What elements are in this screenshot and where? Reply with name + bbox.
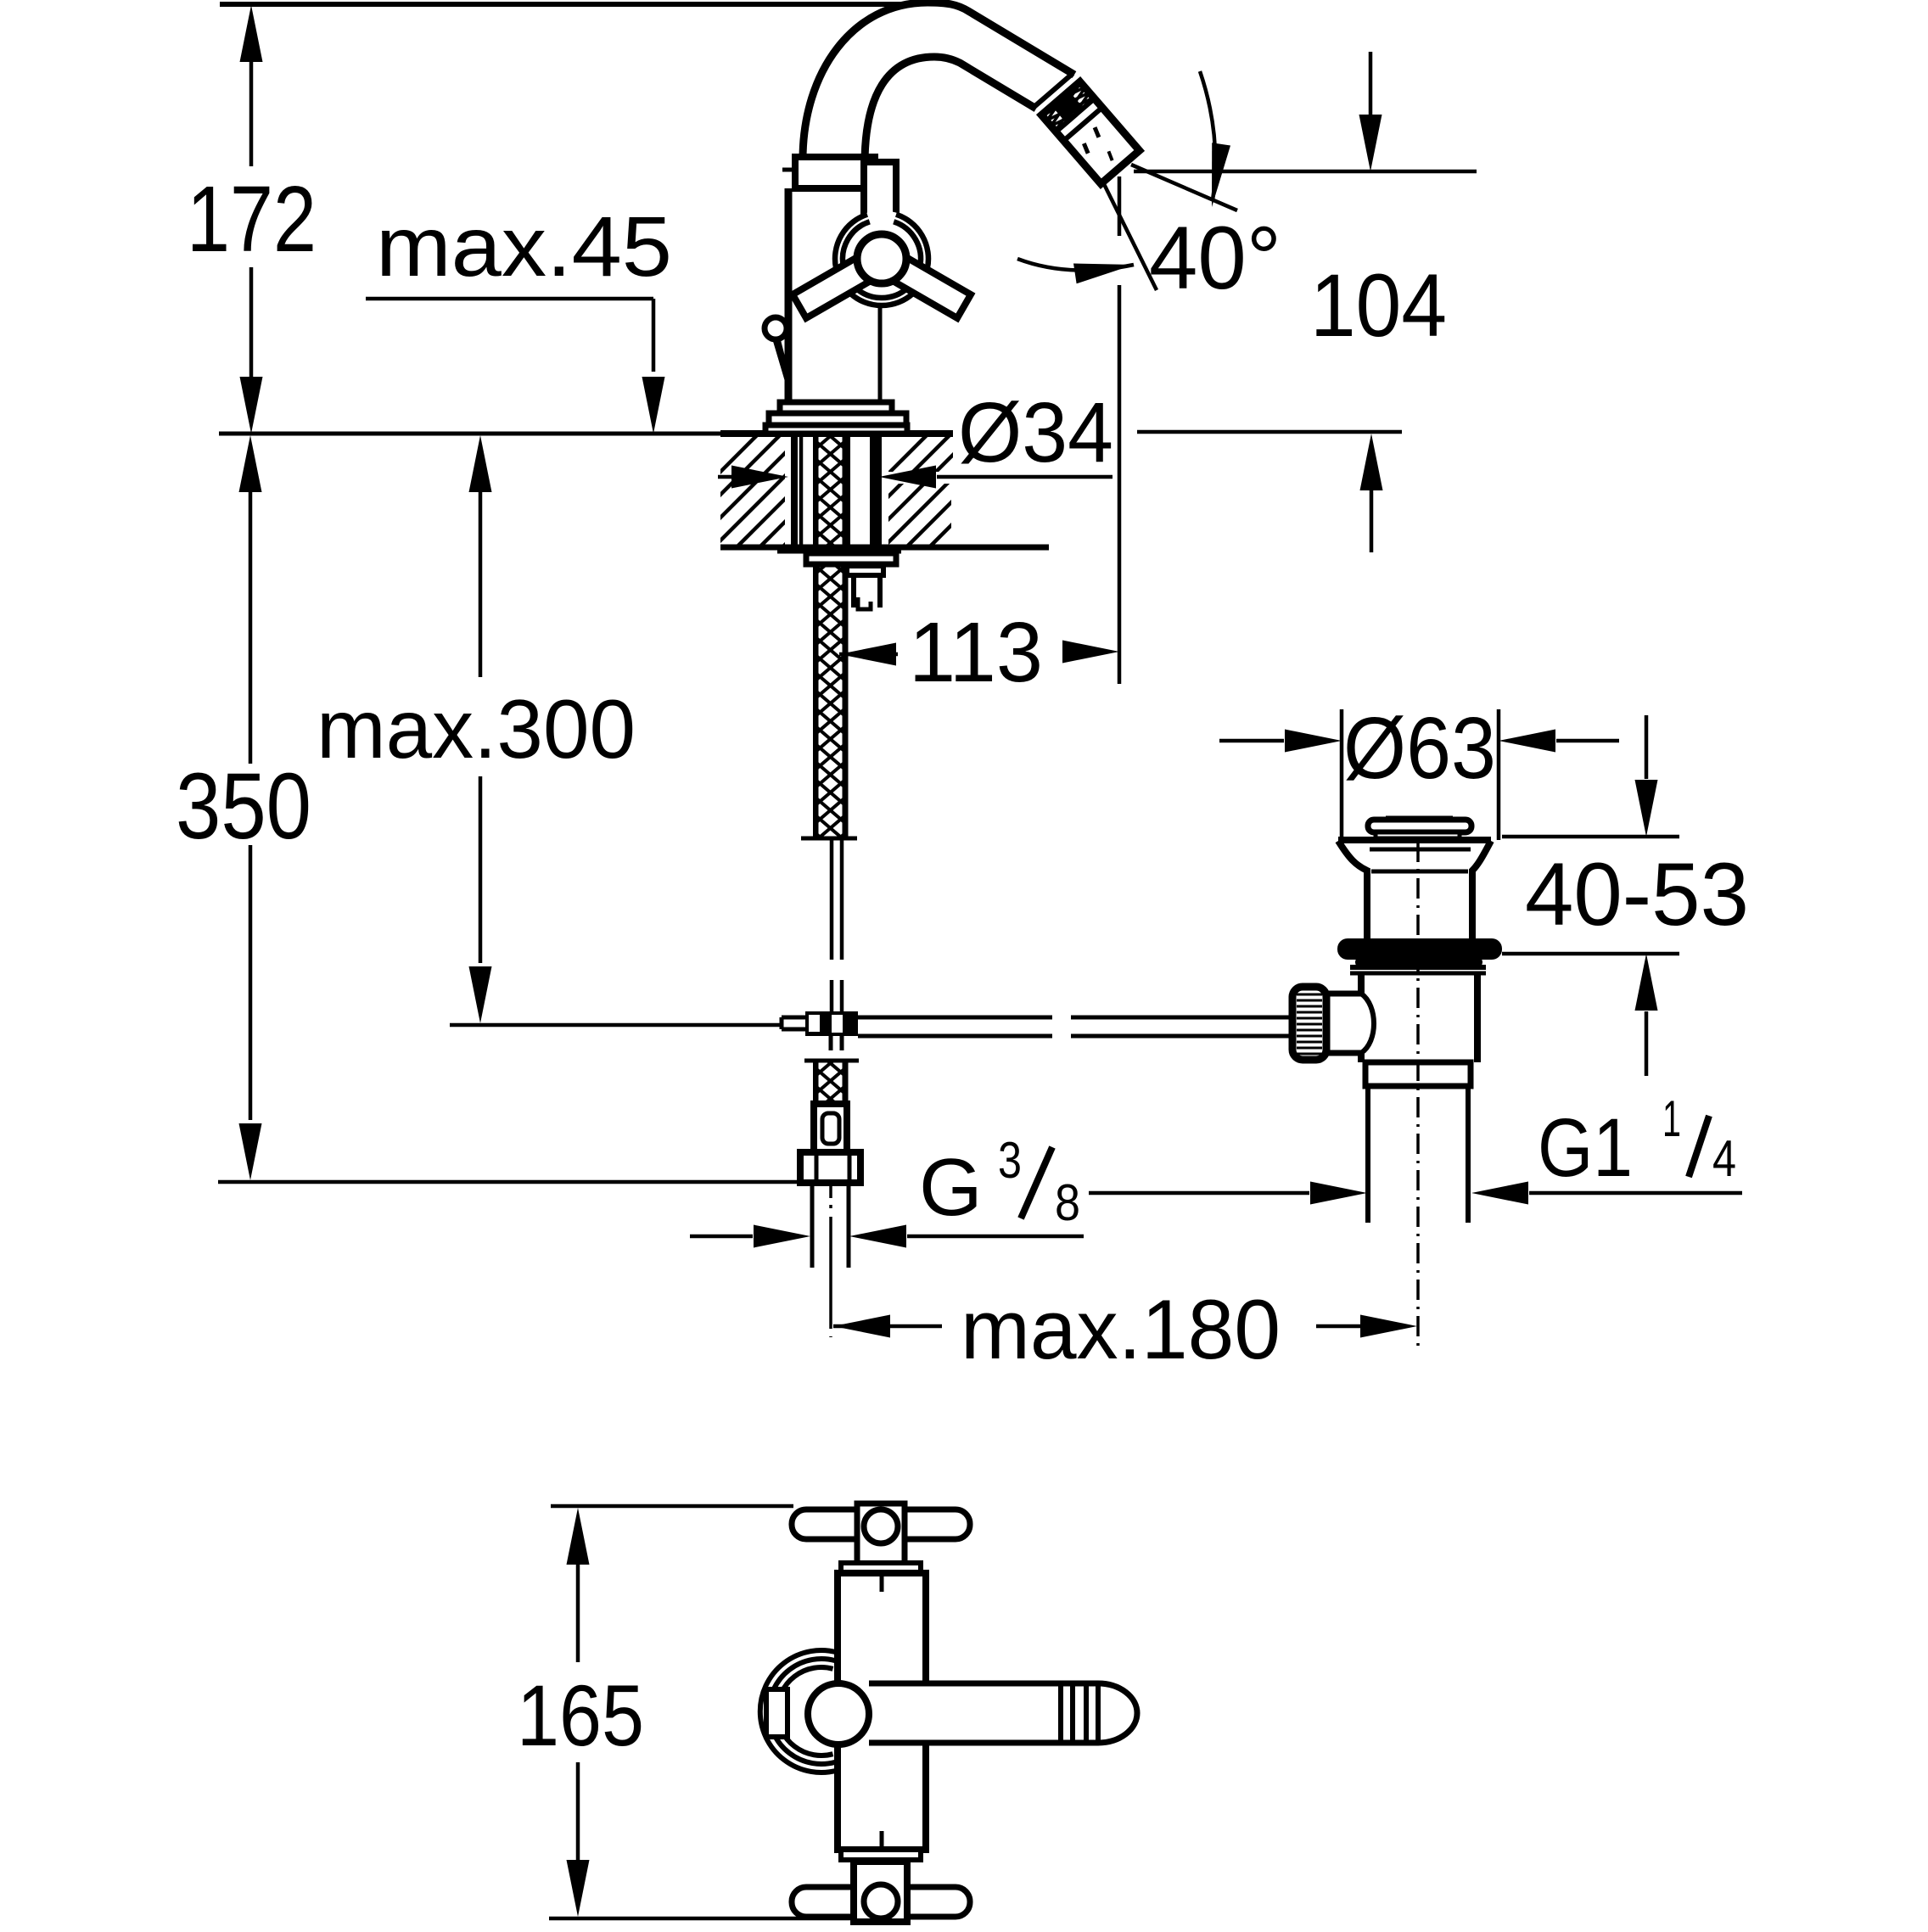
- pop-up lever rod to drain: [858, 1016, 1052, 1020]
- supply nut: [800, 1152, 860, 1183]
- wire: second hose cap line: [804, 1059, 859, 1063]
- svg-text:4: 4: [1712, 1130, 1736, 1187]
- wire: spout outlet level extension line: [1134, 170, 1477, 174]
- wire: max.180 dimension: [833, 1315, 890, 1338]
- svg-text:Ø34: Ø34: [958, 385, 1113, 480]
- pop-up rod hook: [858, 597, 871, 609]
- svg-text:40°: 40°: [1149, 209, 1281, 308]
- wire: deck slab top edge: [720, 430, 953, 437]
- wire: deck level extension to 104 dim: [1137, 430, 1402, 434]
- plan view spout cylinder: [869, 1683, 1137, 1743]
- svg-text:8: 8: [1055, 1174, 1080, 1231]
- drain lever port housing: [1326, 991, 1363, 997]
- plan view upper handle hub: [857, 1504, 905, 1565]
- wire: max.45 leader underline: [366, 297, 653, 301]
- svg-text:113: 113: [909, 605, 1043, 700]
- threaded shank below deck: [791, 434, 798, 547]
- wire: 350 bottom extension line: [218, 1180, 801, 1184]
- plan view upper cross-handle bar: [792, 1509, 970, 1539]
- plan view spout hub circle: [808, 1683, 869, 1744]
- svg-text:G: G: [919, 1142, 983, 1233]
- wire: hose end cap line: [801, 837, 857, 841]
- svg-text:172: 172: [187, 167, 317, 272]
- supply pipe: [810, 1183, 815, 1268]
- drain waste body: [1350, 965, 1486, 970]
- wire: 104 dimension arrows: [1369, 52, 1373, 119]
- svg-text:3: 3: [998, 1132, 1022, 1189]
- faucet body collar: [795, 157, 875, 188]
- drain knurled adjuster knob: [1292, 987, 1326, 1060]
- supply pipe center line: [829, 1184, 832, 1337]
- wire: Ø34 dimension arrows: [718, 475, 737, 479]
- svg-text:Ø63: Ø63: [1343, 699, 1496, 797]
- wire: 172 dimension line with arrows: [240, 5, 263, 62]
- wire: deck top reference line: [219, 432, 722, 436]
- drain tailpipe threaded ring: [1365, 1062, 1471, 1086]
- pop-up lever knob: [765, 317, 787, 339]
- wire: 40-53 dimension: [1502, 835, 1679, 839]
- plan view escutcheon arcs: [760, 1650, 838, 1772]
- pop-up rod tube in shank: [845, 437, 850, 565]
- svg-text:max.300: max.300: [317, 682, 636, 776]
- lever left stub: [782, 1016, 805, 1020]
- wire: 40° arc lower with arrowhead: [1017, 259, 1134, 271]
- plan view lower handle: [841, 1850, 921, 1860]
- hose fitting: [814, 1104, 847, 1152]
- drain bell flange: [1338, 837, 1491, 843]
- wire: G3/8 dimension arrows: [690, 1235, 753, 1239]
- drain pop-up plug: [1386, 816, 1453, 820]
- wire: 350 dimension line: [239, 435, 262, 492]
- svg-text:G1: G1: [1538, 1101, 1633, 1194]
- wire: vertical extension line from spout tip: [1118, 176, 1122, 236]
- handle spokes: [793, 257, 871, 318]
- faucet spout curved tube: [803, 3, 1074, 160]
- handle hub rings: [833, 210, 930, 307]
- wire: 40° arc upper with arrowhead: [1200, 71, 1215, 200]
- handle hub center: [857, 234, 906, 283]
- wire: max.45 leader drop: [652, 299, 656, 372]
- drain Ø63 extension lines: [1340, 709, 1344, 840]
- handle stem: [864, 162, 896, 235]
- svg-text:350: 350: [176, 754, 311, 859]
- drain center line: [1416, 842, 1420, 1348]
- svg-text:max.180: max.180: [961, 1282, 1281, 1376]
- wire: G1 1/4 dimension arrows: [1089, 1191, 1309, 1196]
- wire: max.300 bottom extension line: [450, 1023, 781, 1028]
- rod clamp block: [805, 1011, 858, 1036]
- drain tailpipe: [1365, 1086, 1370, 1223]
- faucet spout aerator tip: [1041, 81, 1139, 183]
- faucet body: [785, 188, 793, 402]
- svg-text:165: 165: [517, 1667, 644, 1764]
- svg-text:1: 1: [1662, 1090, 1681, 1147]
- wire: 113 dimension: [839, 643, 896, 666]
- pop-up rod: [830, 839, 834, 960]
- plan view faucet body: [838, 1573, 926, 1850]
- wire: max.300 dimension line: [469, 435, 492, 492]
- wire: 40° leader line B: [1103, 182, 1157, 290]
- deck slab cross-section: [720, 545, 1049, 551]
- svg-text:max.45: max.45: [376, 199, 672, 294]
- wire: max.45 arrow at deck: [642, 377, 665, 434]
- svg-text:40-53: 40-53: [1525, 845, 1749, 944]
- plan view pop-up knob: [766, 1689, 787, 1737]
- wire: 172 top extension line: [220, 2, 901, 7]
- wire: 40° leader line A: [1131, 165, 1237, 210]
- wire: body front edge below hub: [878, 305, 883, 402]
- washer and locknut under deck: [777, 546, 901, 554]
- wire: 165 dimension: [551, 1504, 793, 1509]
- drain rubber seal: [1337, 938, 1502, 960]
- svg-text:104: 104: [1310, 256, 1447, 356]
- Ø63 dimension: [1219, 739, 1284, 743]
- faucet base flange: [780, 402, 892, 413]
- piece below clamp: [829, 1036, 833, 1050]
